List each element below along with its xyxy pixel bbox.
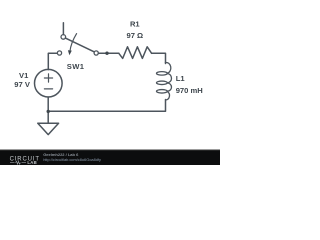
- wire junction to ground symbol: [47, 111, 49, 123]
- svg-text:SW1: SW1: [67, 62, 85, 71]
- wire V1 top to switch left throw: [48, 53, 57, 69]
- svg-text:970 mH: 970 mH: [176, 86, 203, 95]
- switch SW1 actuator arrow: [70, 34, 77, 52]
- svg-text:LAB: LAB: [27, 160, 37, 165]
- switch SW1 lever: [65, 38, 94, 52]
- wire resistor to inductor top: [152, 53, 166, 63]
- svg-text:V1: V1: [19, 71, 29, 80]
- svg-text:97 V: 97 V: [14, 80, 31, 89]
- switch SW1 right throw terminal: [94, 51, 98, 55]
- V1 minus sign: [44, 88, 52, 90]
- switch arrow head: [68, 50, 72, 55]
- wire V1 bottom: [47, 97, 49, 111]
- voltage source V1 circle: [35, 69, 63, 97]
- switch SW1 pivot terminal: [61, 35, 66, 40]
- wire inductor bottom to ground rail: [48, 100, 165, 112]
- watermark banner: [0, 150, 220, 166]
- junction dot at ground rail: [47, 110, 50, 113]
- junction dot at switch output: [105, 52, 108, 55]
- wire switch to resistor: [98, 52, 118, 54]
- svg-text:R1: R1: [130, 20, 140, 29]
- svg-text:http://circuitlab.com/c8u6Goa8: http://circuitlab.com/c8u6Goa8dfy: [43, 157, 101, 162]
- V1 plus sign: [44, 74, 52, 82]
- wire stub above switch pivot: [62, 23, 64, 35]
- switch SW1 left throw terminal: [57, 51, 61, 55]
- resistor R1 zigzag: [119, 47, 152, 59]
- ground symbol: [38, 123, 59, 134]
- svg-text:97 Ω: 97 Ω: [126, 31, 143, 40]
- svg-text:L1: L1: [176, 74, 186, 83]
- inductor L1 coil: [165, 62, 170, 73]
